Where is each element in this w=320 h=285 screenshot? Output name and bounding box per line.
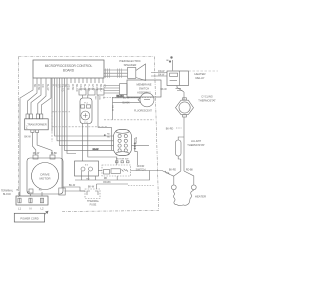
svg-text:BOARD: BOARD	[63, 69, 75, 73]
svg-text:BK-W: BK-W	[160, 88, 167, 91]
svg-text:BU: BU	[94, 97, 96, 100]
svg-text:BU-W: BU-W	[123, 98, 130, 100]
svg-text:RD: RD	[102, 84, 105, 88]
svg-text:BU-W: BU-W	[69, 184, 76, 187]
thermal fuse	[85, 184, 100, 206]
svg-text:THERMOSTAT: THERMOSTAT	[198, 98, 216, 102]
svg-text:SWITCH: SWITCH	[136, 169, 146, 172]
junction connector	[59, 188, 85, 195]
svg-text:BLOCK: BLOCK	[3, 193, 12, 196]
microprocessor control board U1	[33, 60, 104, 78]
svg-text:CYCLING: CYCLING	[201, 95, 213, 99]
hi-limit thermostat	[166, 127, 205, 171]
svg-text:L2: L2	[41, 206, 44, 210]
svg-text:PIEZOELECTRIC: PIEZOELECTRIC	[119, 59, 140, 63]
svg-text:POWER CORD: POWER CORD	[20, 216, 38, 220]
svg-text:W-BK: W-BK	[51, 152, 58, 155]
svg-text:DOOR: DOOR	[137, 165, 145, 168]
motor switch block	[104, 129, 149, 165]
svg-text:N: N	[30, 206, 32, 210]
board pin wires and color labels	[33, 78, 106, 92]
cycling thermostat	[176, 92, 217, 136]
heater element	[169, 170, 206, 206]
svg-text:FLUORESCENT: FLUORESCENT	[134, 110, 152, 113]
svg-text:RD: RD	[39, 190, 43, 192]
transformer T1	[25, 114, 49, 132]
svg-text:SPEAKER: SPEAKER	[124, 63, 137, 67]
svg-text:MICROPROCESSOR CONTROL: MICROPROCESSOR CONTROL	[45, 64, 93, 68]
svg-text:MEMBRANE: MEMBRANE	[137, 83, 152, 87]
svg-text:RD-BK: RD-BK	[186, 170, 194, 172]
drive motor M1	[27, 155, 63, 194]
svg-text:BK-BU: BK-BU	[99, 84, 102, 92]
svg-text:SWITCH: SWITCH	[139, 87, 149, 91]
svg-text:BU: BU	[107, 137, 110, 139]
svg-text:HEATER: HEATER	[195, 194, 206, 198]
svg-text:ASSEMBLY: ASSEMBLY	[137, 91, 151, 95]
power cord	[14, 211, 48, 222]
svg-text:MOTOR: MOTOR	[39, 177, 51, 181]
svg-text:THERMOSTAT: THERMOSTAT	[187, 143, 205, 147]
wires transformer to motor	[24, 132, 57, 155]
dashed inner wires	[52, 111, 70, 113]
fluorescent lamp	[134, 93, 154, 113]
svg-text:RD: RD	[107, 134, 111, 136]
console dashed border	[19, 56, 155, 58]
svg-text:HI-LIMIT: HI-LIMIT	[191, 139, 202, 143]
heater relay K1	[151, 57, 218, 92]
svg-text:BK-W: BK-W	[111, 106, 113, 111]
svg-text:BK-RD: BK-RD	[169, 170, 176, 172]
svg-text:RD-W: RD-W	[158, 71, 165, 73]
svg-text:RD: RD	[104, 178, 108, 180]
belt switch	[75, 161, 99, 181]
svg-text:BK-W: BK-W	[24, 135, 31, 138]
wires to fluorescent lamp	[98, 95, 141, 150]
terminal block	[1, 189, 48, 210]
svg-text:FUSE: FUSE	[90, 203, 97, 206]
svg-text:RD-W: RD-W	[33, 152, 40, 155]
svg-text:RD-W: RD-W	[93, 149, 99, 151]
svg-text:MOTOR SW.: MOTOR SW.	[116, 159, 129, 161]
svg-text:BK-W: BK-W	[88, 186, 95, 189]
wires board to transformer	[20, 83, 51, 196]
svg-text:BK-RD: BK-RD	[166, 127, 174, 130]
svg-text:OR: OR	[57, 84, 60, 88]
svg-text:RD-BK: RD-BK	[103, 181, 111, 184]
svg-text:BU-W: BU-W	[83, 84, 86, 91]
svg-text:W-BK: W-BK	[71, 84, 74, 91]
connector block P1	[80, 95, 117, 165]
svg-text:L1: L1	[18, 206, 21, 210]
long vertical wires from board	[52, 83, 114, 188]
svg-text:RELAY: RELAY	[196, 76, 205, 80]
svg-text:BK-RD: BK-RD	[75, 84, 78, 92]
svg-text:TRANSFORMER: TRANSFORMER	[27, 124, 47, 127]
piezoelectric speaker	[104, 59, 146, 81]
svg-text:GY-W: GY-W	[91, 84, 94, 91]
membrane switch assembly	[104, 80, 162, 97]
connector plugs P3 P4	[79, 89, 104, 95]
door switch	[98, 165, 174, 180]
svg-text:BU-BK: BU-BK	[122, 103, 129, 105]
bottom buses	[63, 171, 154, 192]
svg-text:BK-W: BK-W	[158, 75, 165, 77]
